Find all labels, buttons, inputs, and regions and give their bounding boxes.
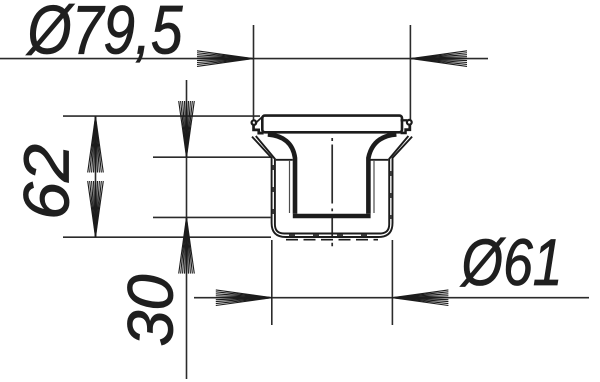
tube outer faint line left — [289, 160, 291, 213]
right clip circle — [407, 120, 412, 125]
funnel insert tube bottom — [293, 214, 371, 219]
left clip diagonal — [255, 117, 262, 124]
dimension 30 upper extension line — [153, 156, 271, 158]
gap seat line right — [371, 159, 389, 161]
tube outer faint line right — [373, 160, 375, 213]
dimension Ø61 dim line — [194, 297, 589, 299]
centerline — [331, 117, 333, 247]
right clip diagonal — [401, 119, 408, 121]
svg-text:30: 30 — [115, 274, 187, 346]
cup bottom dashed rib line — [286, 239, 378, 241]
dimension Ø79,5 right arrow — [411, 51, 467, 67]
cup right wall rib ticks — [390, 171, 392, 219]
svg-text:Ø61: Ø61 — [460, 225, 563, 299]
dimension 62 top extension line — [63, 115, 260, 117]
right clip hook — [401, 125, 412, 135]
dimension 62 up arrow — [88, 117, 104, 173]
dimension Ø61 right arrow — [392, 290, 448, 306]
funnel insert left wall and tube — [268, 134, 295, 213]
dimension Ø61 right extension line — [391, 240, 393, 325]
cup inner contour — [256, 136, 409, 234]
svg-text:62: 62 — [11, 144, 83, 220]
dimension Ø79,5 left arrow — [197, 51, 253, 67]
dimension Ø61 left extension line — [271, 240, 273, 325]
dimension 30 down arrow — [179, 101, 195, 157]
dimension Ø79,5 left extension line — [253, 25, 255, 122]
cup bottom rib ticks — [289, 234, 375, 236]
svg-text:Ø79,5: Ø79,5 — [26, 0, 183, 69]
dimension Ø79,5 dim line — [0, 58, 488, 60]
dimension 30 lower extension line — [153, 216, 271, 218]
dimension 30 up arrow — [179, 218, 195, 274]
dimension 62 dim line — [95, 116, 97, 237]
gap seat line left — [276, 159, 293, 161]
dimension 30 dim line — [186, 80, 188, 379]
dimension 62 down arrow — [88, 181, 104, 237]
cup left wall rib ticks — [272, 165, 274, 219]
dimension 62 bottom extension line — [63, 236, 271, 238]
funnel insert right wall and tube — [368, 134, 396, 213]
cup outer contour — [252, 137, 412, 237]
left clip circle — [252, 120, 257, 125]
dimension Ø79,5 right extension line — [409, 25, 411, 122]
dimension Ø61 left arrow — [216, 290, 272, 306]
left clip hook — [252, 125, 263, 135]
funnel insert flange — [262, 116, 402, 133]
